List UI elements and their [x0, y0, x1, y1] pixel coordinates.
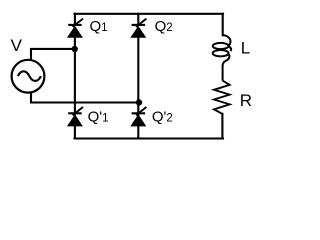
wire middle branch upper (top rail to Q2 cathode) [137, 14, 139, 25]
wire left branch upper (top rail to Q1 cathode) [74, 14, 76, 25]
wire source bottom lead to node B [31, 93, 138, 103]
svg-text:Q1: Q1 [90, 18, 108, 35]
svg-text:L: L [241, 38, 250, 57]
wire right branch top (rail to inductor) [222, 14, 224, 36]
wire middle branch lower (Q2 anode to bottom rail) [137, 38, 139, 139]
wire bottom rail [75, 137, 224, 139]
thyristor Q'2 [130, 107, 146, 126]
wire source top lead to node A [31, 49, 75, 60]
node A junction dot [72, 46, 78, 52]
wire right branch bottom (resistor to rail) [221, 114, 223, 139]
thyristor Q'1 [67, 107, 83, 126]
svg-text:Q'2: Q'2 [152, 109, 173, 126]
thyristor Q1 [67, 19, 83, 38]
wire left branch lower (Q1 anode to bottom rail) [74, 38, 76, 139]
inductor L [213, 35, 231, 81]
ac source V [12, 60, 45, 93]
thyristor Q2 [130, 19, 146, 38]
svg-text:Q'1: Q'1 [88, 109, 109, 126]
svg-text:R: R [240, 91, 252, 110]
svg-text:V: V [11, 36, 23, 55]
node B junction dot [136, 99, 142, 105]
resistor R [214, 81, 230, 114]
svg-text:Q2: Q2 [155, 18, 173, 35]
wire top rail [75, 13, 224, 15]
